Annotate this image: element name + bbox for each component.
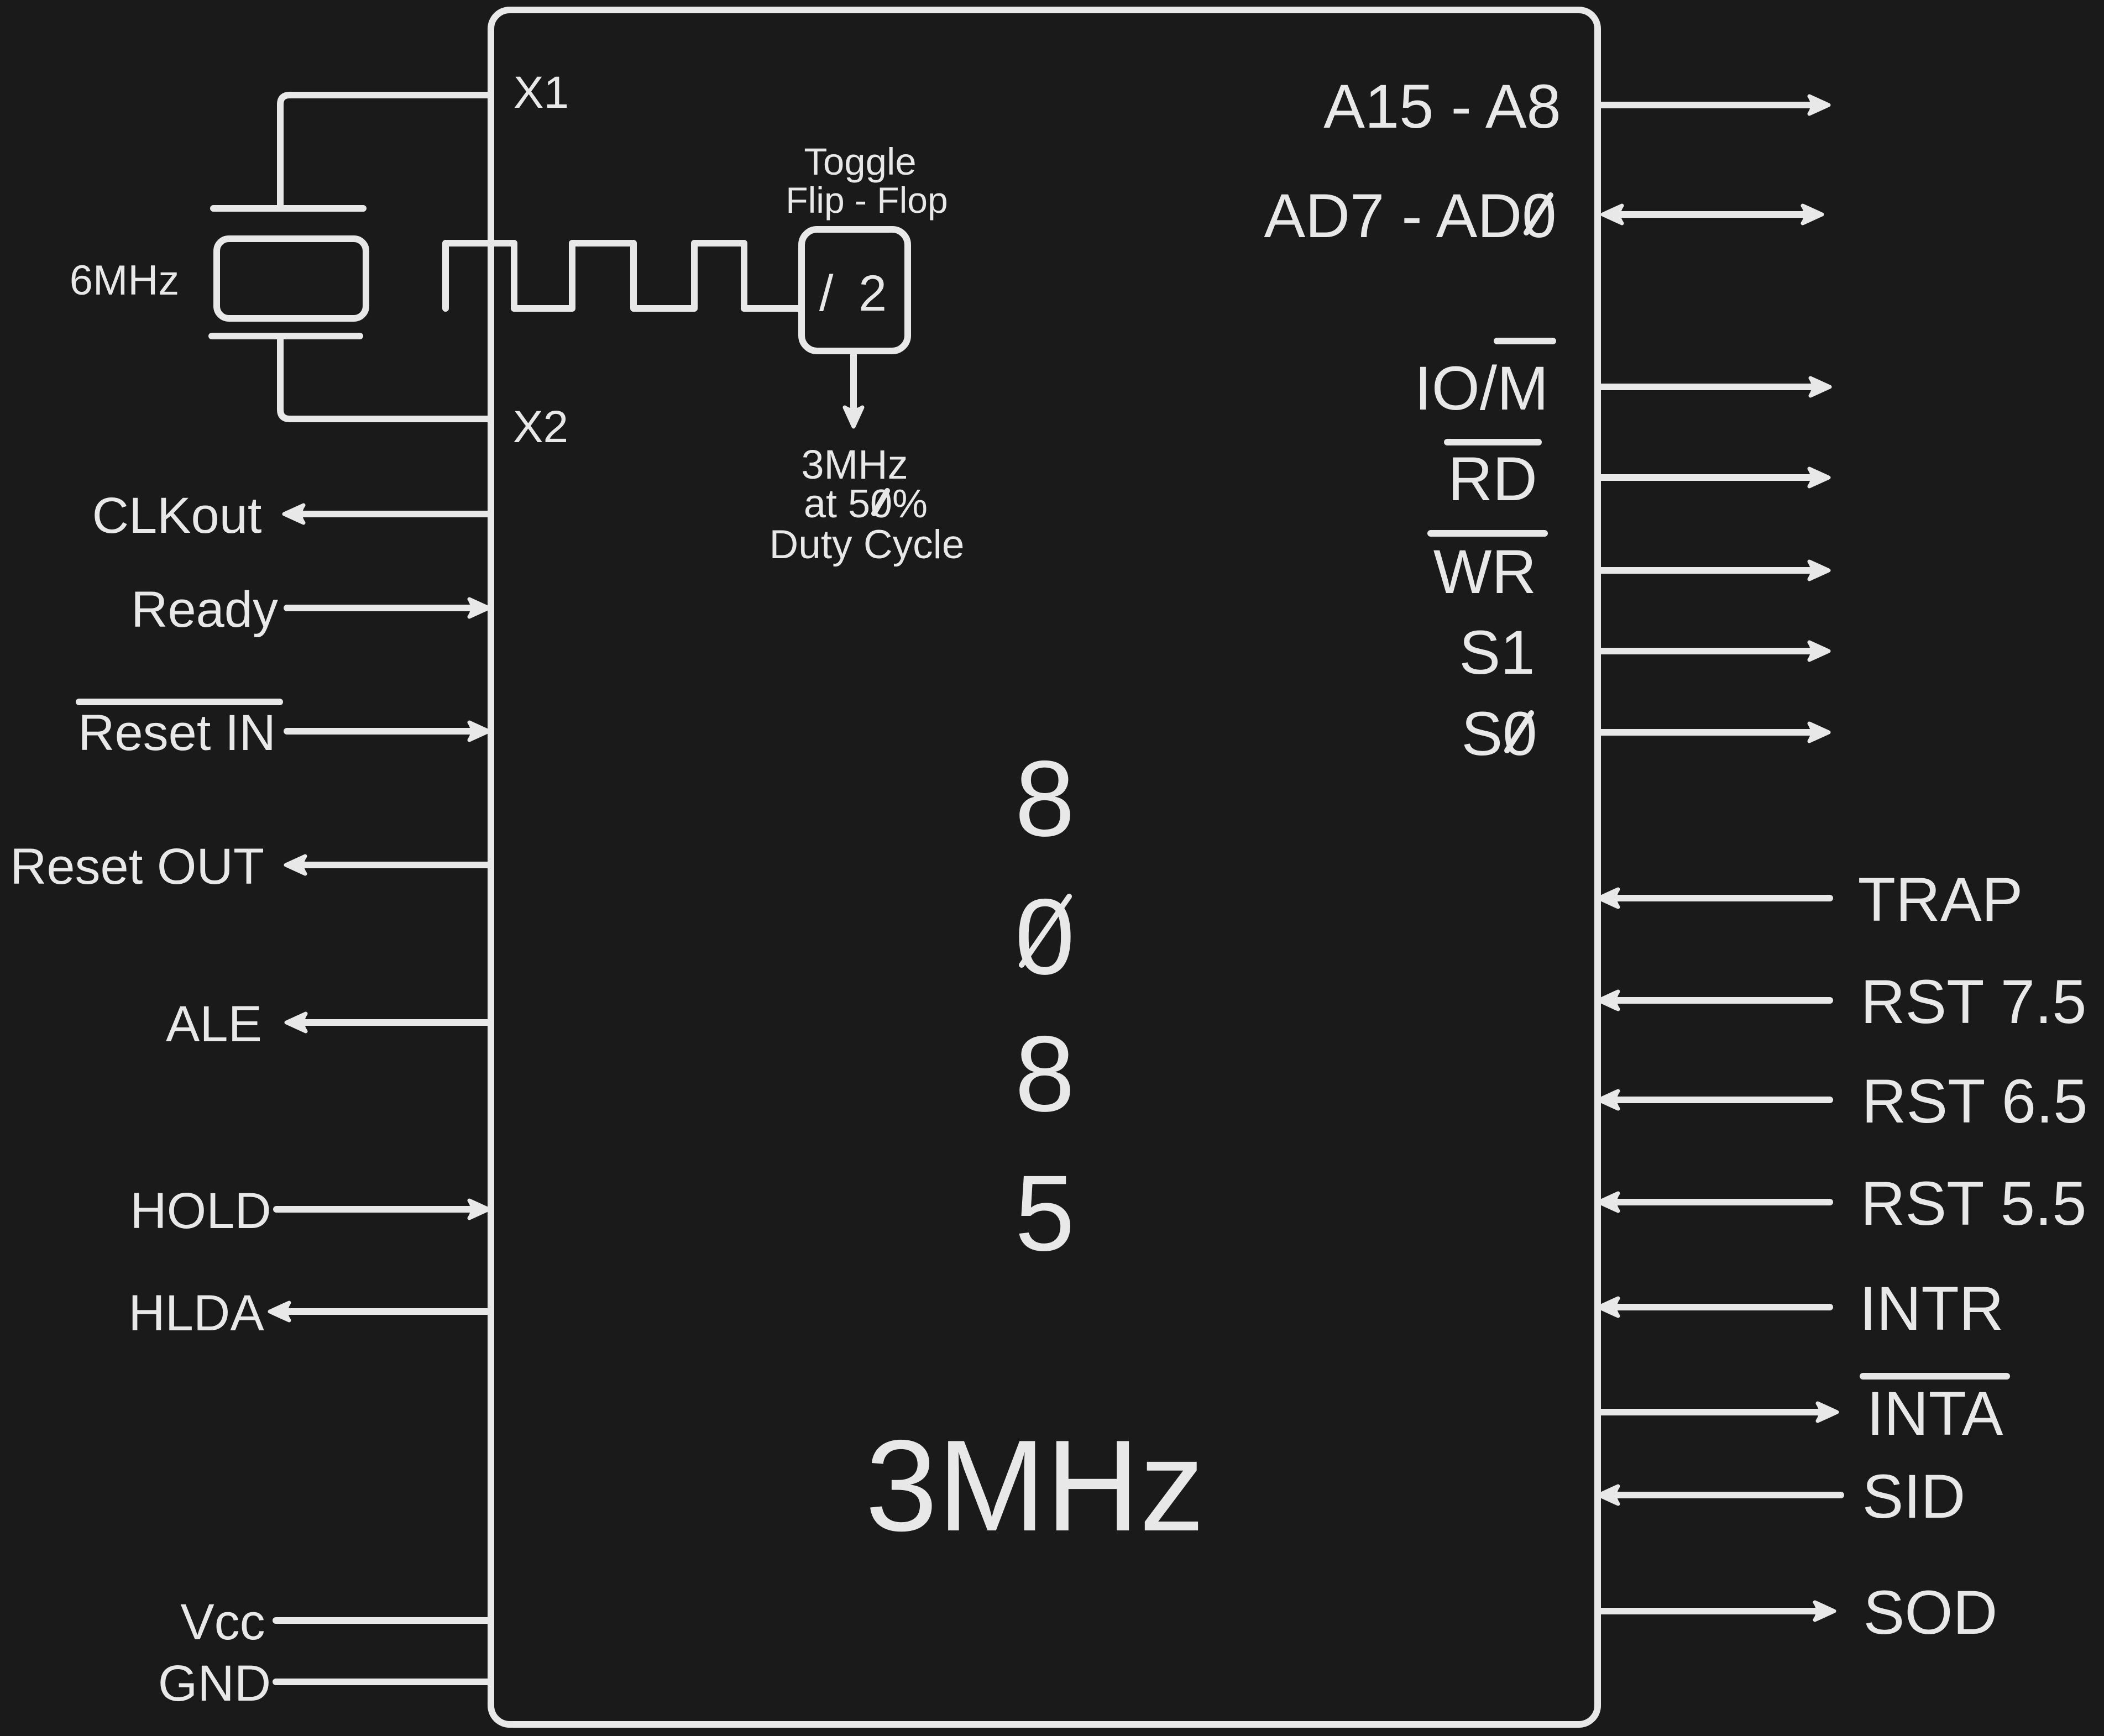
svg-text:Toggle: Toggle	[804, 140, 916, 183]
svg-text:S0: S0	[1462, 699, 1537, 768]
svg-text:SID: SID	[1862, 1462, 1966, 1531]
svg-text:Duty Cycle: Duty Cycle	[770, 522, 965, 567]
svg-text:RD: RD	[1448, 444, 1537, 513]
svg-text:TRAP: TRAP	[1858, 865, 2023, 934]
svg-text:IO/M: IO/M	[1415, 354, 1549, 423]
svg-text:A15 - A8: A15 - A8	[1323, 72, 1561, 141]
svg-text:INTA: INTA	[1867, 1379, 2003, 1448]
svg-text:WR: WR	[1433, 537, 1537, 606]
svg-text:3MHz: 3MHz	[865, 1413, 1205, 1558]
svg-text:6MHz: 6MHz	[70, 257, 179, 304]
svg-text:RST 6.5: RST 6.5	[1862, 1067, 2088, 1136]
svg-text:8: 8	[1015, 738, 1075, 859]
svg-text:3MHz: 3MHz	[801, 442, 908, 487]
svg-text:AD7 - AD0: AD7 - AD0	[1264, 181, 1556, 250]
svg-text:HOLD: HOLD	[130, 1183, 271, 1239]
svg-text:/ 2: / 2	[819, 265, 892, 322]
svg-text:SOD: SOD	[1864, 1578, 1998, 1647]
svg-text:RST 5.5: RST 5.5	[1861, 1169, 2087, 1238]
svg-text:Reset IN: Reset IN	[78, 705, 276, 761]
svg-text:X2: X2	[513, 402, 568, 452]
svg-text:Ready: Ready	[131, 581, 278, 638]
svg-text:X1: X1	[514, 67, 569, 118]
svg-text:RST 7.5: RST 7.5	[1861, 967, 2087, 1036]
svg-text:S1: S1	[1459, 618, 1535, 687]
svg-text:at 50%: at 50%	[804, 482, 928, 526]
svg-text:Reset OUT: Reset OUT	[10, 838, 264, 895]
svg-text:ALE: ALE	[166, 996, 262, 1052]
svg-text:0: 0	[1015, 877, 1075, 997]
svg-text:Flip - Flop: Flip - Flop	[786, 180, 948, 221]
svg-text:CLKout: CLKout	[92, 487, 262, 544]
svg-text:HLDA: HLDA	[128, 1285, 264, 1341]
svg-text:GND: GND	[158, 1655, 271, 1712]
svg-text:Vcc: Vcc	[180, 1594, 265, 1650]
svg-text:5: 5	[1015, 1153, 1075, 1273]
svg-text:8: 8	[1015, 1014, 1075, 1134]
svg-text:INTR: INTR	[1859, 1274, 2003, 1343]
